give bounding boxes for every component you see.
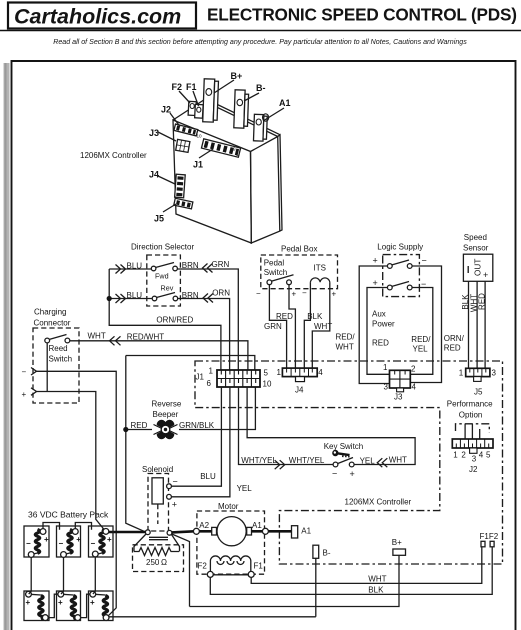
svg-text:+: + (44, 535, 49, 544)
svg-text:+: + (90, 598, 95, 607)
svg-text:ORN/: ORN/ (444, 334, 465, 343)
svg-text:−: − (422, 256, 427, 266)
svg-text:Cartaholics.com: Cartaholics.com (14, 5, 181, 29)
svg-text:YEL: YEL (360, 457, 376, 466)
svg-text:GRN: GRN (212, 260, 230, 269)
svg-text:RED: RED (276, 312, 293, 321)
svg-text:4: 4 (412, 383, 417, 392)
svg-text:Switch: Switch (264, 268, 288, 277)
svg-text:Solenoid: Solenoid (142, 465, 173, 474)
svg-text:2: 2 (461, 451, 466, 460)
svg-text:1206MX Controller: 1206MX Controller (345, 498, 412, 507)
svg-text:250 Ω: 250 Ω (146, 558, 167, 567)
svg-text:B-: B- (256, 83, 266, 93)
svg-text:+: + (107, 535, 112, 544)
svg-text:GRN: GRN (264, 322, 282, 331)
svg-text:B+: B+ (231, 71, 243, 81)
svg-text:+: + (350, 469, 355, 479)
svg-text:10: 10 (197, 134, 203, 139)
svg-text:3: 3 (472, 455, 477, 464)
svg-text:YEL: YEL (413, 345, 429, 354)
svg-text:RED: RED (478, 293, 487, 310)
svg-text:Beeper: Beeper (153, 410, 179, 419)
svg-text:1: 1 (277, 368, 282, 377)
svg-text:Reed: Reed (49, 344, 68, 353)
svg-text:ELECTRONIC SPEED CONTROL (PDS): ELECTRONIC SPEED CONTROL (PDS) (207, 5, 517, 25)
svg-text:RED/: RED/ (336, 333, 356, 342)
svg-text:WHT/YEL: WHT/YEL (289, 456, 325, 465)
svg-text:WHT: WHT (314, 322, 332, 331)
svg-text:BRN: BRN (182, 261, 199, 270)
svg-text:Switch: Switch (49, 355, 73, 364)
svg-text:BLK: BLK (307, 312, 323, 321)
svg-text:Direction Selector: Direction Selector (131, 243, 194, 252)
svg-text:J3: J3 (149, 128, 159, 138)
svg-text:1: 1 (209, 367, 214, 376)
svg-text:1: 1 (459, 369, 464, 378)
svg-text:WHT: WHT (336, 343, 354, 352)
svg-text:1: 1 (453, 451, 458, 460)
svg-text:ITS: ITS (314, 264, 326, 273)
svg-text:−: − (302, 289, 307, 298)
svg-text:ORN/RED: ORN/RED (156, 316, 193, 325)
svg-text:+: + (76, 535, 81, 544)
svg-text:J1: J1 (196, 373, 205, 382)
svg-text:−: − (22, 368, 27, 377)
svg-text:Logic Supply: Logic Supply (377, 242, 423, 251)
svg-text:+: + (58, 598, 63, 607)
svg-text:BLK: BLK (368, 586, 384, 595)
svg-text:Fwd: Fwd (155, 272, 169, 281)
svg-text:F2: F2 (172, 82, 183, 92)
svg-text:A1: A1 (279, 98, 291, 108)
svg-text:WHT: WHT (368, 574, 386, 583)
svg-text:BLU: BLU (127, 291, 143, 300)
svg-text:+: + (373, 256, 378, 266)
svg-text:+: + (172, 500, 177, 510)
svg-text:F1: F1 (254, 562, 264, 571)
svg-text:F1: F1 (186, 82, 197, 92)
svg-text:Power: Power (372, 320, 395, 329)
svg-text:RED: RED (444, 344, 461, 353)
svg-text:Rev: Rev (161, 284, 174, 293)
svg-text:+: + (483, 270, 488, 280)
svg-text:+: + (26, 598, 31, 607)
svg-text:1206MX Controller: 1206MX Controller (80, 151, 147, 160)
svg-text:3: 3 (492, 369, 497, 378)
svg-text:RED: RED (131, 421, 148, 430)
svg-text:J5: J5 (154, 214, 164, 224)
svg-text:RED: RED (372, 339, 389, 348)
svg-text:−: − (91, 539, 96, 548)
svg-text:Charging: Charging (34, 308, 66, 317)
svg-text:J4: J4 (295, 386, 304, 395)
svg-text:Sensor: Sensor (463, 243, 489, 252)
svg-text:2: 2 (411, 365, 416, 374)
svg-text:Aux: Aux (372, 310, 386, 319)
svg-text:5: 5 (264, 369, 269, 378)
svg-text:A2: A2 (199, 521, 209, 530)
svg-text:BRN: BRN (182, 291, 199, 300)
svg-text:F1F2: F1F2 (480, 532, 499, 541)
svg-text:9: 9 (233, 147, 236, 152)
svg-text:WHT: WHT (389, 456, 407, 465)
svg-text:GRN/BLK: GRN/BLK (179, 421, 215, 430)
svg-text:Speed: Speed (464, 233, 487, 242)
svg-text:J1: J1 (193, 160, 203, 170)
svg-text:A1: A1 (301, 526, 311, 535)
svg-text:−: − (59, 539, 64, 548)
svg-text:1: 1 (383, 363, 388, 372)
svg-text:A1: A1 (252, 521, 262, 530)
svg-text:+: + (22, 390, 27, 399)
svg-text:36 VDC Battery Pack: 36 VDC Battery Pack (28, 509, 109, 519)
svg-text:−: − (173, 477, 178, 487)
svg-text:4: 4 (318, 368, 323, 377)
svg-text:WHT/YEL: WHT/YEL (241, 456, 277, 465)
svg-text:Read all of Section B and this: Read all of Section B and this section b… (53, 38, 467, 46)
svg-text:5: 5 (204, 144, 207, 149)
svg-text:Option: Option (459, 410, 483, 419)
svg-text:6: 6 (207, 379, 212, 388)
svg-text:−: − (332, 469, 337, 479)
svg-text:YEL: YEL (237, 484, 253, 493)
svg-text:10: 10 (263, 380, 272, 389)
svg-text:Motor: Motor (218, 502, 239, 511)
svg-text:B-: B- (323, 549, 331, 558)
svg-text:+: + (292, 290, 297, 299)
svg-text:−: − (26, 539, 31, 548)
svg-text:RED/WHT: RED/WHT (127, 333, 164, 342)
svg-text:J3: J3 (394, 393, 403, 402)
svg-text:3: 3 (384, 383, 389, 392)
svg-text:J5: J5 (474, 388, 483, 397)
svg-text:Pedal Box: Pedal Box (281, 245, 317, 254)
svg-text:BLU: BLU (127, 262, 143, 271)
svg-text:+: + (332, 290, 337, 299)
svg-text:Connector: Connector (34, 319, 71, 328)
svg-text:Key Switch: Key Switch (324, 442, 364, 451)
svg-text:5: 5 (486, 451, 491, 460)
svg-text:−: − (256, 289, 261, 298)
svg-text:J2: J2 (161, 105, 171, 115)
svg-text:+: + (373, 278, 378, 288)
svg-text:1: 1 (236, 152, 239, 157)
svg-text:Performance: Performance (447, 400, 493, 409)
svg-text:J2: J2 (469, 465, 478, 474)
svg-text:OUT: OUT (473, 259, 482, 276)
svg-text:RED/: RED/ (411, 335, 431, 344)
svg-text:B+: B+ (392, 538, 402, 547)
svg-text:BLU: BLU (200, 472, 216, 481)
svg-text:F2: F2 (198, 562, 208, 571)
svg-text:Reverse: Reverse (152, 400, 182, 409)
svg-text:ORN: ORN (212, 289, 230, 298)
svg-text:Pedal: Pedal (264, 258, 285, 267)
svg-text:4: 4 (479, 451, 484, 460)
svg-text:J4: J4 (149, 170, 159, 180)
svg-text:WHT: WHT (88, 332, 106, 341)
